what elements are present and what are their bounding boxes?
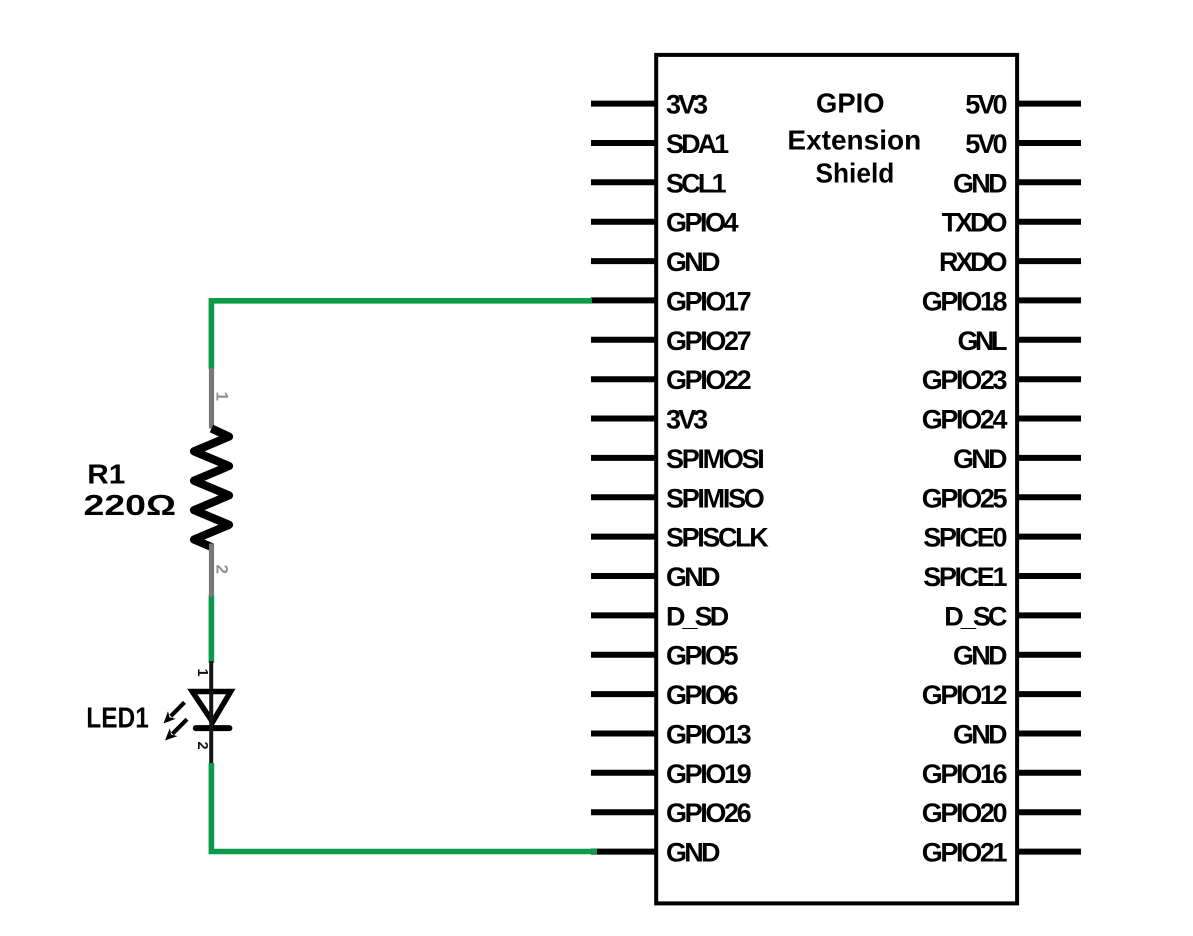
svg-text:GND: GND	[953, 641, 1008, 671]
svg-text:GPIO25: GPIO25	[922, 483, 1008, 513]
LED1 cathode bar	[196, 725, 230, 731]
svg-text:SPISCLK: SPISCLK	[666, 523, 769, 553]
svg-text:SCL1: SCL1	[666, 168, 727, 198]
svg-text:SPIMOSI: SPIMOSI	[666, 444, 765, 474]
svg-text:GPIO24: GPIO24	[922, 405, 1008, 435]
svg-text:GND: GND	[666, 247, 721, 277]
wire: GPIO17 to R1 (green)	[211, 301, 592, 369]
svg-text:GND: GND	[666, 562, 721, 592]
svg-text:5V0: 5V0	[965, 90, 1007, 120]
svg-text:GPIO27: GPIO27	[666, 326, 752, 356]
LED1 emission arrow 1	[164, 702, 185, 723]
svg-text:GPIO13: GPIO13	[666, 720, 752, 750]
svg-text:GPIO4: GPIO4	[666, 208, 739, 238]
svg-text:5V0: 5V0	[965, 129, 1007, 159]
svg-text:Extension: Extension	[787, 125, 921, 156]
svg-text:2: 2	[194, 742, 210, 750]
resistor R1 zigzag	[194, 429, 229, 548]
left pins	[591, 104, 657, 852]
svg-text:GPIO23: GPIO23	[922, 365, 1008, 395]
svg-text:D_SC: D_SC	[944, 601, 1007, 631]
svg-text:SPIMISO: SPIMISO	[666, 483, 765, 513]
resistor R1 pin 1 (gray)	[209, 368, 214, 429]
svg-text:GND: GND	[953, 168, 1008, 198]
svg-text:3V3: 3V3	[666, 90, 708, 120]
LED1 emission arrow 2	[165, 719, 187, 740]
resistor R1 pin 2 (gray)	[209, 544, 214, 597]
svg-text:GND: GND	[953, 720, 1008, 750]
svg-text:Shield: Shield	[816, 158, 895, 189]
svg-text:GPIO6: GPIO6	[666, 680, 739, 710]
svg-text:1: 1	[194, 669, 210, 677]
wire: R1 to LED1 (green)	[209, 595, 215, 663]
svg-text:SDA1: SDA1	[666, 129, 729, 159]
svg-text:GPIO18: GPIO18	[922, 286, 1008, 316]
svg-text:GND: GND	[666, 838, 721, 868]
svg-text:SPICE1: SPICE1	[923, 562, 1007, 592]
svg-text:1: 1	[213, 392, 232, 401]
svg-text:GPIO17: GPIO17	[666, 286, 752, 316]
right pins	[1016, 104, 1081, 852]
svg-text:SPICE0: SPICE0	[923, 523, 1007, 553]
title: GPIO Extension Shield	[787, 88, 921, 189]
svg-text:D_SD: D_SD	[666, 601, 729, 631]
svg-text:GPIO5: GPIO5	[666, 641, 739, 671]
svg-text:GPIO: GPIO	[816, 88, 885, 119]
svg-text:R1: R1	[87, 459, 125, 490]
svg-text:220Ω: 220Ω	[84, 490, 177, 522]
svg-text:2: 2	[213, 565, 232, 574]
svg-text:GPIO26: GPIO26	[666, 798, 752, 828]
svg-text:3V3: 3V3	[666, 405, 708, 435]
svg-text:GPIO21: GPIO21	[922, 838, 1008, 868]
svg-text:GPIO19: GPIO19	[666, 759, 752, 789]
LED1 pin 1 (black lead)	[209, 661, 213, 691]
svg-text:GPIO20: GPIO20	[922, 798, 1008, 828]
LED1 middle lead	[209, 691, 213, 763]
svg-text:GNL: GNL	[958, 326, 1008, 356]
svg-text:GPIO12: GPIO12	[922, 680, 1008, 710]
left pin labels	[666, 90, 769, 868]
svg-text:GND: GND	[953, 444, 1008, 474]
svg-text:RXDO: RXDO	[939, 247, 1008, 277]
IC body: GPIO Extension Shield U1	[656, 55, 1017, 904]
svg-text:GPIO16: GPIO16	[922, 759, 1008, 789]
svg-text:GPIO22: GPIO22	[666, 365, 752, 395]
LED1 triangle (anode)	[192, 692, 230, 723]
svg-text:LED1: LED1	[86, 702, 149, 734]
wire: LED1 to GND (green)	[211, 763, 597, 852]
svg-text:TXDO: TXDO	[942, 208, 1008, 238]
right pin labels	[922, 90, 1008, 868]
